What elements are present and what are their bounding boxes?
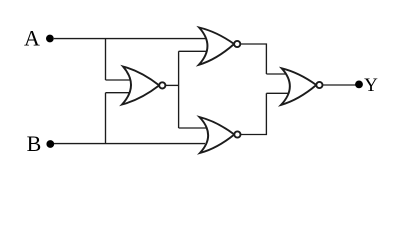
svg-text:A: A <box>24 26 40 51</box>
svg-text:B: B <box>27 131 42 156</box>
NOR gate U2 bubble <box>234 41 240 47</box>
node dot output Y <box>355 81 363 89</box>
NOR gate U1 body <box>122 67 159 105</box>
svg-text:Y: Y <box>364 75 378 96</box>
wire split vertical <box>178 51 180 128</box>
NOR gate U4 bubble <box>316 82 322 88</box>
wire U4 top input stub <box>266 73 288 75</box>
node dot input B <box>46 140 54 148</box>
wire U1 top input stub <box>106 79 131 81</box>
NOR gate U3 body <box>199 117 234 153</box>
wire B branch vertical <box>105 93 107 144</box>
wire A horizontal <box>54 38 207 40</box>
node dot input A <box>46 35 54 43</box>
wire Y output <box>323 84 357 86</box>
wire U4 bottom input stub <box>266 92 289 94</box>
wire U1 bottom input stub <box>106 92 131 94</box>
NOR gate U4 body <box>281 68 316 105</box>
NOR gate U3 bubble <box>234 131 240 137</box>
wire B horizontal <box>54 143 205 145</box>
wire U2 bottom input stub <box>179 50 206 52</box>
NOR gate U1 bubble <box>159 82 165 88</box>
wire U3 output <box>241 93 267 134</box>
NOR gate U2 body <box>199 28 234 65</box>
wire U2 output <box>240 44 266 74</box>
wire U1 output <box>165 84 178 86</box>
wire A branch vertical <box>105 39 107 80</box>
wire U3 top input stub <box>179 127 207 129</box>
